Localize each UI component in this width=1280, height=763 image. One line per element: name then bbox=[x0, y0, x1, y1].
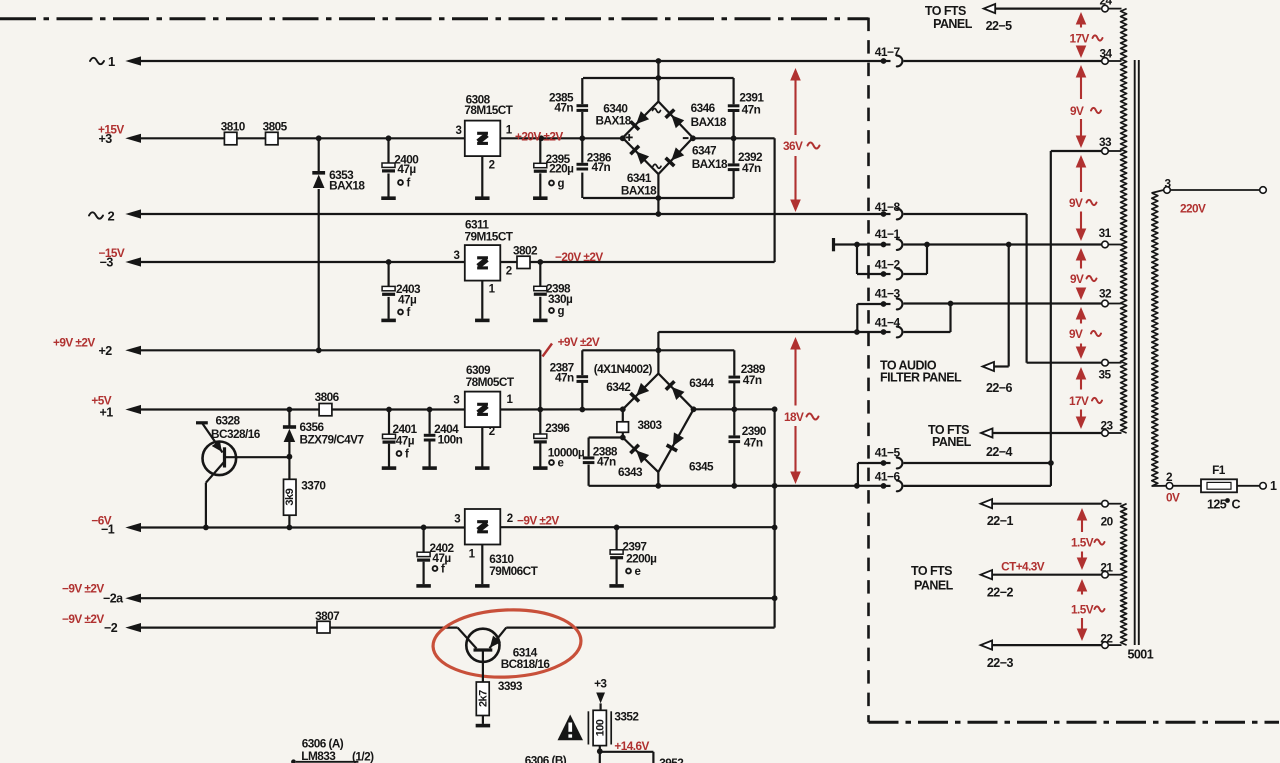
svg-text:2: 2 bbox=[506, 266, 512, 278]
svg-text:17V: 17V bbox=[1070, 32, 1090, 46]
svg-text:79M06CT: 79M06CT bbox=[489, 564, 538, 578]
svg-text:32: 32 bbox=[1099, 287, 1112, 301]
svg-text:PANEL: PANEL bbox=[933, 17, 973, 31]
svg-text:220µ: 220µ bbox=[549, 162, 574, 176]
svg-text:47n: 47n bbox=[744, 435, 763, 449]
svg-text:17V: 17V bbox=[1069, 394, 1089, 408]
svg-text:47n: 47n bbox=[597, 455, 616, 469]
svg-text:10000µ: 10000µ bbox=[548, 446, 585, 460]
svg-text:41−1: 41−1 bbox=[875, 227, 901, 241]
svg-text:−20V ±2V: −20V ±2V bbox=[555, 250, 603, 264]
svg-text:−2a: −2a bbox=[103, 591, 124, 605]
svg-text:6343: 6343 bbox=[618, 465, 643, 479]
svg-text:22−1: 22−1 bbox=[987, 514, 1014, 528]
svg-text:18V: 18V bbox=[784, 410, 804, 424]
svg-text:100n: 100n bbox=[438, 433, 463, 447]
svg-text:2396: 2396 bbox=[545, 421, 570, 435]
svg-text:1: 1 bbox=[1270, 479, 1277, 493]
svg-text:47n: 47n bbox=[554, 101, 573, 115]
svg-text:6328: 6328 bbox=[216, 414, 241, 428]
svg-text:BC328/16: BC328/16 bbox=[211, 427, 261, 441]
svg-text:78M05CT: 78M05CT bbox=[466, 375, 515, 389]
svg-text:+14.6V: +14.6V bbox=[614, 739, 649, 753]
svg-text:BAX18: BAX18 bbox=[621, 184, 657, 198]
svg-text:2: 2 bbox=[1166, 470, 1173, 484]
svg-text:3807: 3807 bbox=[315, 609, 340, 623]
svg-text:1.5V: 1.5V bbox=[1071, 536, 1094, 550]
svg-text:BZX79/C4V7: BZX79/C4V7 bbox=[300, 433, 365, 447]
svg-text:20: 20 bbox=[1101, 515, 1114, 529]
svg-text:C: C bbox=[1232, 498, 1241, 512]
svg-text:g: g bbox=[558, 306, 565, 318]
svg-text:36V: 36V bbox=[783, 139, 803, 153]
svg-text:5001: 5001 bbox=[1128, 648, 1154, 662]
svg-text:6345: 6345 bbox=[689, 460, 714, 474]
svg-text:3803: 3803 bbox=[638, 418, 663, 432]
svg-text:6342: 6342 bbox=[606, 380, 631, 394]
svg-text:24: 24 bbox=[1099, 0, 1112, 8]
svg-text:F1: F1 bbox=[1212, 463, 1226, 477]
svg-text:22−2: 22−2 bbox=[987, 586, 1014, 600]
svg-text:22: 22 bbox=[1100, 632, 1113, 646]
svg-text:78M15CT: 78M15CT bbox=[464, 103, 513, 117]
svg-text:47n: 47n bbox=[742, 161, 761, 175]
svg-text:(4X1N4002): (4X1N4002) bbox=[594, 362, 653, 376]
svg-text:330µ: 330µ bbox=[548, 292, 573, 306]
svg-text:BAX18: BAX18 bbox=[691, 115, 727, 129]
svg-text:PANEL: PANEL bbox=[914, 579, 954, 593]
svg-text:79M15CT: 79M15CT bbox=[465, 229, 514, 243]
svg-text:22−3: 22−3 bbox=[987, 656, 1014, 670]
svg-text:9V: 9V bbox=[1070, 272, 1084, 286]
svg-text:+9V ±2V: +9V ±2V bbox=[53, 336, 95, 350]
svg-text:3393: 3393 bbox=[498, 679, 523, 693]
svg-text:41−5: 41−5 bbox=[875, 446, 901, 460]
svg-text:9V: 9V bbox=[1070, 104, 1084, 118]
svg-text:CT+4.3V: CT+4.3V bbox=[1001, 559, 1045, 573]
svg-text:3952: 3952 bbox=[659, 756, 684, 763]
svg-text:9V: 9V bbox=[1069, 196, 1083, 210]
svg-text:6347: 6347 bbox=[692, 144, 717, 158]
svg-text:BAX18: BAX18 bbox=[692, 157, 728, 171]
svg-text:+2: +2 bbox=[99, 344, 113, 358]
svg-text:2k7: 2k7 bbox=[478, 690, 490, 707]
svg-text:3: 3 bbox=[454, 250, 460, 262]
svg-text:3352: 3352 bbox=[614, 710, 639, 724]
svg-text:1: 1 bbox=[108, 54, 115, 69]
svg-text:2: 2 bbox=[489, 160, 495, 172]
svg-text:125: 125 bbox=[1207, 498, 1227, 512]
svg-text:−3: −3 bbox=[100, 256, 114, 270]
svg-text:22−6: 22−6 bbox=[986, 381, 1013, 395]
svg-text:6306 (B): 6306 (B) bbox=[525, 754, 567, 763]
svg-text:+20V ±2V: +20V ±2V bbox=[515, 129, 563, 143]
svg-text:41−8: 41−8 bbox=[875, 200, 901, 214]
svg-text:BAX18: BAX18 bbox=[329, 179, 365, 193]
svg-text:−9V ±2V: −9V ±2V bbox=[62, 581, 104, 595]
svg-text:+3: +3 bbox=[594, 676, 607, 690]
svg-text:3370: 3370 bbox=[301, 479, 326, 493]
svg-text:e: e bbox=[558, 458, 564, 470]
svg-text:47µ: 47µ bbox=[396, 434, 415, 448]
svg-text:6344: 6344 bbox=[689, 376, 714, 390]
svg-text:41−7: 41−7 bbox=[875, 45, 901, 59]
svg-text:g: g bbox=[558, 178, 565, 190]
svg-text:41−2: 41−2 bbox=[875, 257, 901, 271]
svg-text:23: 23 bbox=[1100, 419, 1113, 433]
svg-text:e: e bbox=[635, 566, 641, 578]
svg-text:−9V ±2V: −9V ±2V bbox=[517, 514, 559, 528]
svg-text:35: 35 bbox=[1098, 368, 1111, 382]
svg-text:22−5: 22−5 bbox=[986, 19, 1013, 33]
svg-text:+3: +3 bbox=[99, 132, 113, 146]
svg-text:41−4: 41−4 bbox=[875, 316, 901, 330]
svg-text:3: 3 bbox=[456, 125, 462, 137]
svg-text:47n: 47n bbox=[743, 373, 762, 387]
svg-text:31: 31 bbox=[1099, 226, 1112, 240]
svg-text:TO FTS: TO FTS bbox=[925, 4, 966, 18]
svg-text:33: 33 bbox=[1099, 135, 1112, 149]
svg-text:22−4: 22−4 bbox=[986, 445, 1013, 459]
svg-text:3802: 3802 bbox=[513, 243, 538, 257]
svg-text:47n: 47n bbox=[742, 103, 761, 117]
svg-text:3: 3 bbox=[454, 514, 460, 526]
svg-text:+1: +1 bbox=[100, 406, 114, 420]
svg-text:41−3: 41−3 bbox=[875, 286, 901, 300]
svg-text:41−6: 41−6 bbox=[875, 470, 901, 484]
svg-text:47µ: 47µ bbox=[398, 293, 417, 307]
svg-text:BAX18: BAX18 bbox=[596, 114, 632, 128]
svg-text:2: 2 bbox=[489, 426, 495, 438]
svg-text:220V: 220V bbox=[1180, 202, 1206, 216]
svg-text:FILTER PANEL: FILTER PANEL bbox=[880, 371, 962, 385]
svg-text:47n: 47n bbox=[555, 370, 574, 384]
svg-text:BC818/16: BC818/16 bbox=[501, 657, 551, 671]
svg-text:2200µ: 2200µ bbox=[626, 551, 657, 565]
svg-text:9V: 9V bbox=[1069, 327, 1083, 341]
svg-text:3: 3 bbox=[1164, 177, 1171, 191]
svg-text:−9V ±2V: −9V ±2V bbox=[62, 612, 104, 626]
svg-text:3806: 3806 bbox=[315, 390, 340, 404]
svg-text:3k9: 3k9 bbox=[284, 488, 296, 505]
svg-text:2: 2 bbox=[108, 209, 115, 224]
svg-text:47n: 47n bbox=[592, 160, 611, 174]
svg-text:PANEL: PANEL bbox=[932, 435, 972, 449]
svg-text:−2: −2 bbox=[104, 621, 118, 635]
svg-text:3: 3 bbox=[453, 395, 459, 407]
svg-text:34: 34 bbox=[1099, 47, 1112, 61]
svg-text:21: 21 bbox=[1100, 561, 1113, 575]
svg-text:0V: 0V bbox=[1166, 491, 1180, 505]
svg-text:3805: 3805 bbox=[263, 120, 288, 134]
svg-text:6346: 6346 bbox=[691, 101, 716, 115]
svg-text:+9V ±2V: +9V ±2V bbox=[558, 335, 600, 349]
svg-text:100: 100 bbox=[595, 719, 607, 736]
svg-text:1.5V: 1.5V bbox=[1071, 603, 1094, 617]
svg-text:47µ: 47µ bbox=[432, 551, 451, 565]
svg-text:−1: −1 bbox=[101, 523, 115, 537]
svg-text:TO FTS: TO FTS bbox=[911, 564, 952, 578]
svg-text:47µ: 47µ bbox=[397, 162, 416, 176]
svg-text:3810: 3810 bbox=[221, 120, 246, 134]
svg-text:2: 2 bbox=[507, 513, 513, 525]
